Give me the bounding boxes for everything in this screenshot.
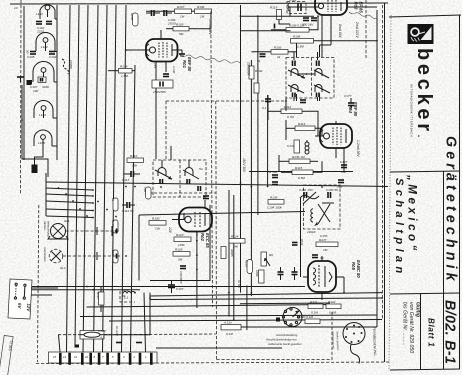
wire Roe5 anode right down [343,277,345,293]
svg-text:1k: 1k [111,198,115,202]
svg-text:R119: R119 [270,6,277,10]
detector dashed box C [304,185,341,229]
wire R126 vertical feed [246,286,248,331]
resistor R135 vertical top [130,13,138,26]
sidebar vertical divider x420 (Blatt column) [420,294,422,369]
svg-text:Kl.+12V: Kl.+12V [115,326,119,337]
capacitor C116 with label [179,266,186,285]
resistor R105 [173,23,189,37]
wire vertical x197 below Roe2 [196,231,198,308]
schematic right frame line [384,3,386,362]
wire R108 left lead [271,29,286,31]
svg-text:Gerätetechnik: Gerätetechnik [443,136,459,285]
wire tuner stubs [52,19,57,146]
capacitor C127 [340,160,348,174]
wire horizontal bus y298 [150,298,382,300]
wire stub battery to bus [31,288,58,295]
wire Roe3 plate to right bus [347,6,377,8]
wire horizontal bus y216 [46,216,93,218]
svg-text:R127: R127 [96,292,100,300]
volume pot squiggle above box C [300,192,319,204]
capacitor C125 C124 [302,18,317,27]
svg-text:10k: 10k [155,227,160,231]
svg-text:R105: R105 [176,23,184,27]
svg-text:L101: L101 [36,12,43,16]
wire horizontal bus y182 long [46,182,388,187]
svg-text:C151 150: C151 150 [299,188,313,192]
svg-text:EBF 80: EBF 80 [187,57,192,72]
svg-text:1M: 1M [180,15,185,19]
svg-text:„Mexico“: „Mexico“ [406,174,419,254]
sidebar text Gueltig block [402,302,421,353]
svg-text:Kl. 8Ω: Kl. 8Ω [237,280,241,289]
wire cell link [298,73,315,75]
svg-text:EABC 80: EABC 80 [356,260,361,278]
resistor R113 vertical [287,140,300,153]
border frame bottom dash-dot line [36,362,390,364]
svg-text:R137: R137 [319,238,327,242]
wire vertical bus upper x71 [67,5,71,352]
svg-text:5k: 5k [257,59,261,63]
wire horizontal y348 [156,347,282,349]
antenna connector thick bar [27,80,32,85]
wire Roe3 legs to IF box A [320,24,332,57]
wire horizontal bus y194 [46,194,93,196]
tone switch rotary circle [276,308,302,327]
svg-text:C122: C122 [289,0,297,2]
resistor R109 vertical on bus [111,250,118,263]
compartment dash-dot vertical x166 [165,101,167,159]
capacitor C137 [344,94,354,110]
resistor R112 [281,105,302,119]
svg-text:150/250V: 150/250V [153,90,167,94]
wire R103 leads [251,43,296,57]
svg-text:R134: R134 [120,65,128,69]
svg-text:Autoskalen-: Autoskalen- [43,246,47,262]
svg-text:2mA 221V: 2mA 221V [355,21,359,38]
label Roe5 [351,260,361,278]
resistor R127 vertical mid-left [96,287,104,313]
sidebar title box divider horizontal y171 [390,171,460,172]
svg-text:C112 50: C112 50 [122,209,134,213]
resistor R138 [267,196,284,210]
compartment dash-dot horizontal y101 [166,100,287,102]
wire R105 leads [166,11,211,29]
svg-text:6mA 66V: 6mA 66V [338,24,342,39]
wire fuse to right [104,293,150,335]
svg-text:1,5M: 1,5M [121,74,128,78]
wire vertical bus x115 [122,5,127,352]
capacitor C134 [300,100,306,103]
svg-text:0,5M: 0,5M [297,45,304,49]
svg-text:R128: R128 [175,248,183,252]
resistor R103 [271,46,288,60]
svg-text:R108 0,1M: R108 0,1M [289,24,305,28]
svg-text:3036: 3036 [42,85,49,89]
capacitor C113 [122,171,140,182]
svg-text:R115: R115 [295,166,302,170]
capacitor C at 155 80 with box label [152,80,173,94]
capacitor C159 [292,239,304,246]
compartment dash-dot vertical x216 [215,101,218,360]
svg-text:100/250V: 100/250V [247,62,251,77]
node A-Z label top left [14,6,18,10]
capacitor C106b inside unit3 [38,77,46,83]
svg-text:2k: 2k [276,55,281,59]
wire lamp SL2 dashed feed [63,252,120,260]
IF transformer dashed box A [286,52,334,101]
wire osc box to R119 [279,20,290,25]
wire vertical bus upper x147 [155,78,157,159]
lamp SL1 [48,219,70,239]
wire right bus vertical x377 [376,10,378,327]
wire enclosure left vertical x300 [300,198,302,277]
chassis boundary dash line lower left [38,205,39,362]
capacitor C105b [49,52,57,60]
ground bar unit3 [27,80,33,84]
wire vertical bus lower x58 [59,335,61,352]
capacitor C105a [27,52,36,60]
coil Fi1c cell [288,85,304,97]
svg-text:0,1: 0,1 [124,296,129,300]
svg-text:2: 2 [133,355,136,359]
wire vertical bus upper x102 [103,5,108,352]
wire vertical x234 [233,195,235,320]
coil Fi2b cell [183,160,199,184]
svg-text:0,1M: 0,1M [226,332,233,336]
svg-text:15k: 15k [132,164,137,168]
svg-text:bis Gerät Nr. .........: bis Gerät Nr. ......... [402,302,408,346]
svg-text:10: 10 [14,6,18,10]
capacitor top of Roe2 area [203,196,209,199]
capacitor C147 [337,180,344,189]
wire dashed fuse feed [58,334,80,336]
antenna terminal bar lower [32,165,38,174]
svg-text:becker.: becker. [413,48,435,141]
svg-text:L104: L104 [39,113,46,117]
resistor R117 vertical on bus [111,220,118,233]
becker logo black square [408,24,434,44]
wire horizontal bus y306 [87,305,331,308]
svg-text:R112: R112 [284,105,291,109]
coil L103 tuner arch unit 3 [33,62,54,82]
svg-text:R135: R135 [130,13,134,21]
resistor R126 [221,321,241,337]
wire vertical x229 [228,190,230,316]
tube Roe2 ECC85 [172,200,212,236]
sidebar title box divider horizontal y293 [390,293,460,294]
terminal T on chassis line [17,77,24,82]
svg-text:24k: 24k [232,245,238,249]
compartment dash-dot horizontal y193 [149,192,216,194]
tube Roe4 EBF80 [315,121,352,172]
wire horizontal bus y292 [150,293,382,296]
capacitor C135 C136 [268,170,278,185]
wire R104 to right bus [314,40,378,42]
svg-text:10: 10 [85,355,89,359]
svg-text:SL1: SL1 [64,219,70,223]
svg-text:Anschlußreihenfolge von: Anschlußreihenfolge von [265,338,297,342]
svg-text:Rö3: Rö3 [354,2,359,11]
wire IF box A coil taps down [297,94,320,101]
battery box 6V 12V [8,279,33,319]
wire vertical x267 [267,95,269,187]
svg-text:C154 100k: C154 100k [267,206,282,210]
svg-text:R124: R124 [231,235,239,239]
svg-text:R122: R122 [328,300,336,304]
enclosure corner around Roe2 [150,205,210,281]
junction dot [21,119,23,121]
svg-text:R121: R121 [310,300,318,304]
resistor R131 vertical [255,270,264,283]
resistor R108 [286,24,309,33]
sidebar title box bottom line [390,369,460,370]
plug cable [351,345,360,364]
capacitor C155 [312,255,324,260]
chassis boundary dash line upper left [20,0,23,195]
capacitor C130 under tube [163,74,169,77]
svg-text:ECC 85: ECC 85 [205,233,210,248]
coil L104 tuner arch unit 4 [34,101,53,119]
svg-text:C0000: C0000 [69,60,73,69]
wire horizontal bus y315 [80,315,377,317]
svg-text:C131: C131 [287,144,295,148]
label Roe2 [200,233,210,248]
coil L110 small [122,288,135,300]
resistor R129 vertical [143,187,151,199]
svg-text:R136 1M: R136 1M [292,155,305,159]
capacitor C157 vertical [278,267,284,280]
svg-text:Gültig: Gültig [415,302,421,318]
svg-text:700: 700 [143,187,147,192]
svg-text:C104: C104 [49,55,57,59]
coil Fi1a cell [288,61,305,79]
wire vertical bus upper x95 [94,5,99,352]
wire top row feed [146,10,175,12]
sidebar right edge line [459,16,461,370]
junction blob near strip [75,345,80,348]
svg-text:14: 14 [63,355,67,359]
svg-text:L110: L110 [122,288,129,292]
label C109 C110 [167,18,176,26]
wire unit5 down [35,146,44,165]
svg-text:162V 30V: 162V 30V [242,158,246,173]
svg-text:Blatt 1: Blatt 1 [427,318,436,347]
svg-text:Skalen-: Skalen- [43,221,47,231]
svg-text:C177: C177 [344,94,352,98]
ganged tuning curly marker [62,59,73,74]
svg-text:0,6AT: 0,6AT [98,329,107,333]
svg-text:12V: 12V [168,227,172,234]
wire R114 leads [286,120,322,140]
wire stub left mid [22,85,48,177]
svg-text:1M: 1M [200,15,205,19]
wire horizontal bus y286 [31,286,305,288]
page corner box TZ [0,335,14,375]
resistor R120 [298,315,320,324]
ratio detector dashed box B [153,160,206,197]
remote plug Fernbedienung circle [343,323,365,345]
svg-text:C150 50: C150 50 [326,188,338,192]
svg-text:Rö5: Rö5 [351,262,356,271]
svg-text:100k: 100k [255,270,259,277]
svg-text:25/15: 25/15 [167,22,176,26]
resistor R102 vertical [249,66,263,79]
svg-text:30M5: 30M5 [230,249,234,257]
svg-text:EBF 80: EBF 80 [353,102,358,117]
svg-text:5k 30k: 5k 30k [268,170,278,174]
wire horizontal bus y188 [46,188,93,190]
wire horizontal bus y327 [241,326,377,328]
resistor R122 [326,300,341,315]
coil vertical near Roe4 [305,140,309,154]
svg-text:Anschlußstellung: Anschlußstellung [275,333,298,337]
svg-text:17mA 65V: 17mA 65V [208,19,212,35]
resistor R128 [173,248,190,262]
svg-text:Rö1: Rö1 [182,60,187,69]
svg-text:AUTORADIOWERK ITTERSBACH: AUTORADIOWERK ITTERSBACH [410,84,414,137]
wire R136 leads [279,155,318,172]
wire antenna feed vertical x33 [23,6,25,160]
wire into box B [170,146,172,160]
svg-text:12: 12 [74,355,78,359]
wire vertical x46 left feeder [45,173,47,216]
coil L105 tuner arch unit 5 [34,130,52,146]
resistor R115 [292,166,313,180]
svg-text:R107: R107 [177,5,185,9]
wire vertical bus upper x108 [112,5,117,352]
svg-text:von Gerät Nr. 929 050: von Gerät Nr. 929 050 [408,302,414,353]
svg-text:SL2: SL2 [60,266,66,270]
resistor R121 [308,300,323,315]
resistor R107 [175,5,192,19]
svg-text:100: 100 [33,89,38,93]
resistor R116 vertical on bus [111,198,118,211]
wire vertical x286 [285,97,287,111]
resistor R101 vertical [254,83,259,93]
svg-text:Außenseite Gerät gesehen: Außenseite Gerät gesehen [267,342,302,346]
wire R115 leads [281,161,322,172]
resistor R119 vertical [270,6,282,20]
capacitor C151 [299,188,313,198]
resistor R124 [229,235,245,249]
svg-text:Schaltplan: Schaltplan [393,178,405,278]
svg-text:C113: C113 [122,178,129,182]
potentiometer R six vertical with arrow [261,252,273,266]
svg-text:1M: 1M [323,248,328,252]
svg-text:R120 0,1M: R120 0,1M [298,315,314,319]
svg-text:R104: R104 [293,35,301,39]
resistor R114 [295,122,315,131]
svg-text:135k: 135k [178,243,185,247]
sidebar vertical divider x443 [443,171,445,369]
wire enclosure left x139 [138,215,140,281]
svg-text:beleuchtung: beleuchtung [47,221,51,237]
svg-text:C127: C127 [340,160,348,164]
tube Roe3 EF85 top right [314,0,352,24]
resistor R106 [195,5,212,19]
sidebar left dotted edge [389,15,391,371]
capacitor inside box B right [198,186,201,191]
wire right bus vertical x382 [382,5,384,320]
wire grid Roe3 [290,7,314,16]
svg-text:R100: R100 [152,217,160,221]
component vertical near x223 [221,247,234,259]
svg-text:C167: C167 [176,287,184,291]
tube Roe1 EBF80 [125,30,182,80]
small bar caps above strip [116,342,142,344]
svg-text:0,1M: 0,1M [329,311,336,315]
screen wavy line from Roe1 [180,55,240,63]
wire horizontal bus y209 [46,209,93,211]
svg-text:100/350V: 100/350V [179,271,183,285]
wire R106 to bus [192,10,195,12]
oscillator dashed box D [287,0,306,13]
label Anschlussstellung [265,333,302,346]
capacitor C108b [164,10,172,16]
antenna jack dashed corner bottom left of Roe2 [120,291,135,302]
labels under unit3 [30,85,49,93]
wire vertical x240 [240,5,242,293]
wire vertical bus lower x134b [144,293,146,352]
svg-text:4,5: 4,5 [100,336,105,340]
resistor R136 [289,155,310,164]
svg-text:0,1M: 0,1M [311,311,318,315]
capacitor C112 [122,202,135,213]
wire horizontal bus y289 [31,289,140,291]
svg-text:5d: 5d [199,167,203,171]
connector strip bottom [49,352,158,365]
terminal bar FM zone [274,24,276,29]
tube Roe5 EABC80 [303,261,344,300]
svg-text:R102: R102 [255,69,263,73]
svg-text:C130: C130 [172,66,176,74]
svg-text:0,1: 0,1 [262,106,267,110]
svg-text:R110: R110 [130,154,137,158]
svg-text:1,2mA 95V: 1,2mA 95V [356,140,360,157]
svg-text:R123: R123 [176,233,184,237]
capacitor C150 [326,188,338,198]
wire Roe5 up lead [321,256,323,261]
wire lamp SL1 dashed feed [66,226,121,236]
compartment dash top right [365,0,367,58]
coil Fi1b cell [314,61,329,79]
sidebar top edge line [389,15,461,17]
compartment dash-dot bottom right L [217,312,333,360]
wire vertical x258 [257,16,259,215]
wire dashed fuse to compartment [104,333,216,336]
junction dots on cathode line [196,240,198,271]
svg-text:Stecker gesehen: Stecker gesehen [336,331,341,351]
svg-text:R106: R106 [197,5,205,9]
fuse Si1 [80,329,107,340]
wire tuner right rail [56,5,58,160]
wire vertical bus upper x79 [75,5,79,346]
wire enclosure top y214 [139,212,305,216]
svg-text:R119: R119 [245,260,249,267]
wire vertical x251 [250,60,252,296]
svg-text:R103: R103 [274,46,282,50]
coil Fi1d cell [314,85,330,97]
wire horizontal bus y201 [46,201,93,203]
wire top right y16 [241,15,315,17]
capacitor C105 pair [257,54,266,63]
svg-text:15: 15 [53,355,57,359]
wire vertical bus x135 [131,65,136,352]
svg-text:R6: R6 [269,253,273,257]
svg-text:Anbringung mit: Anbringung mit [331,330,336,349]
junction dots bus left ends [92,189,94,218]
